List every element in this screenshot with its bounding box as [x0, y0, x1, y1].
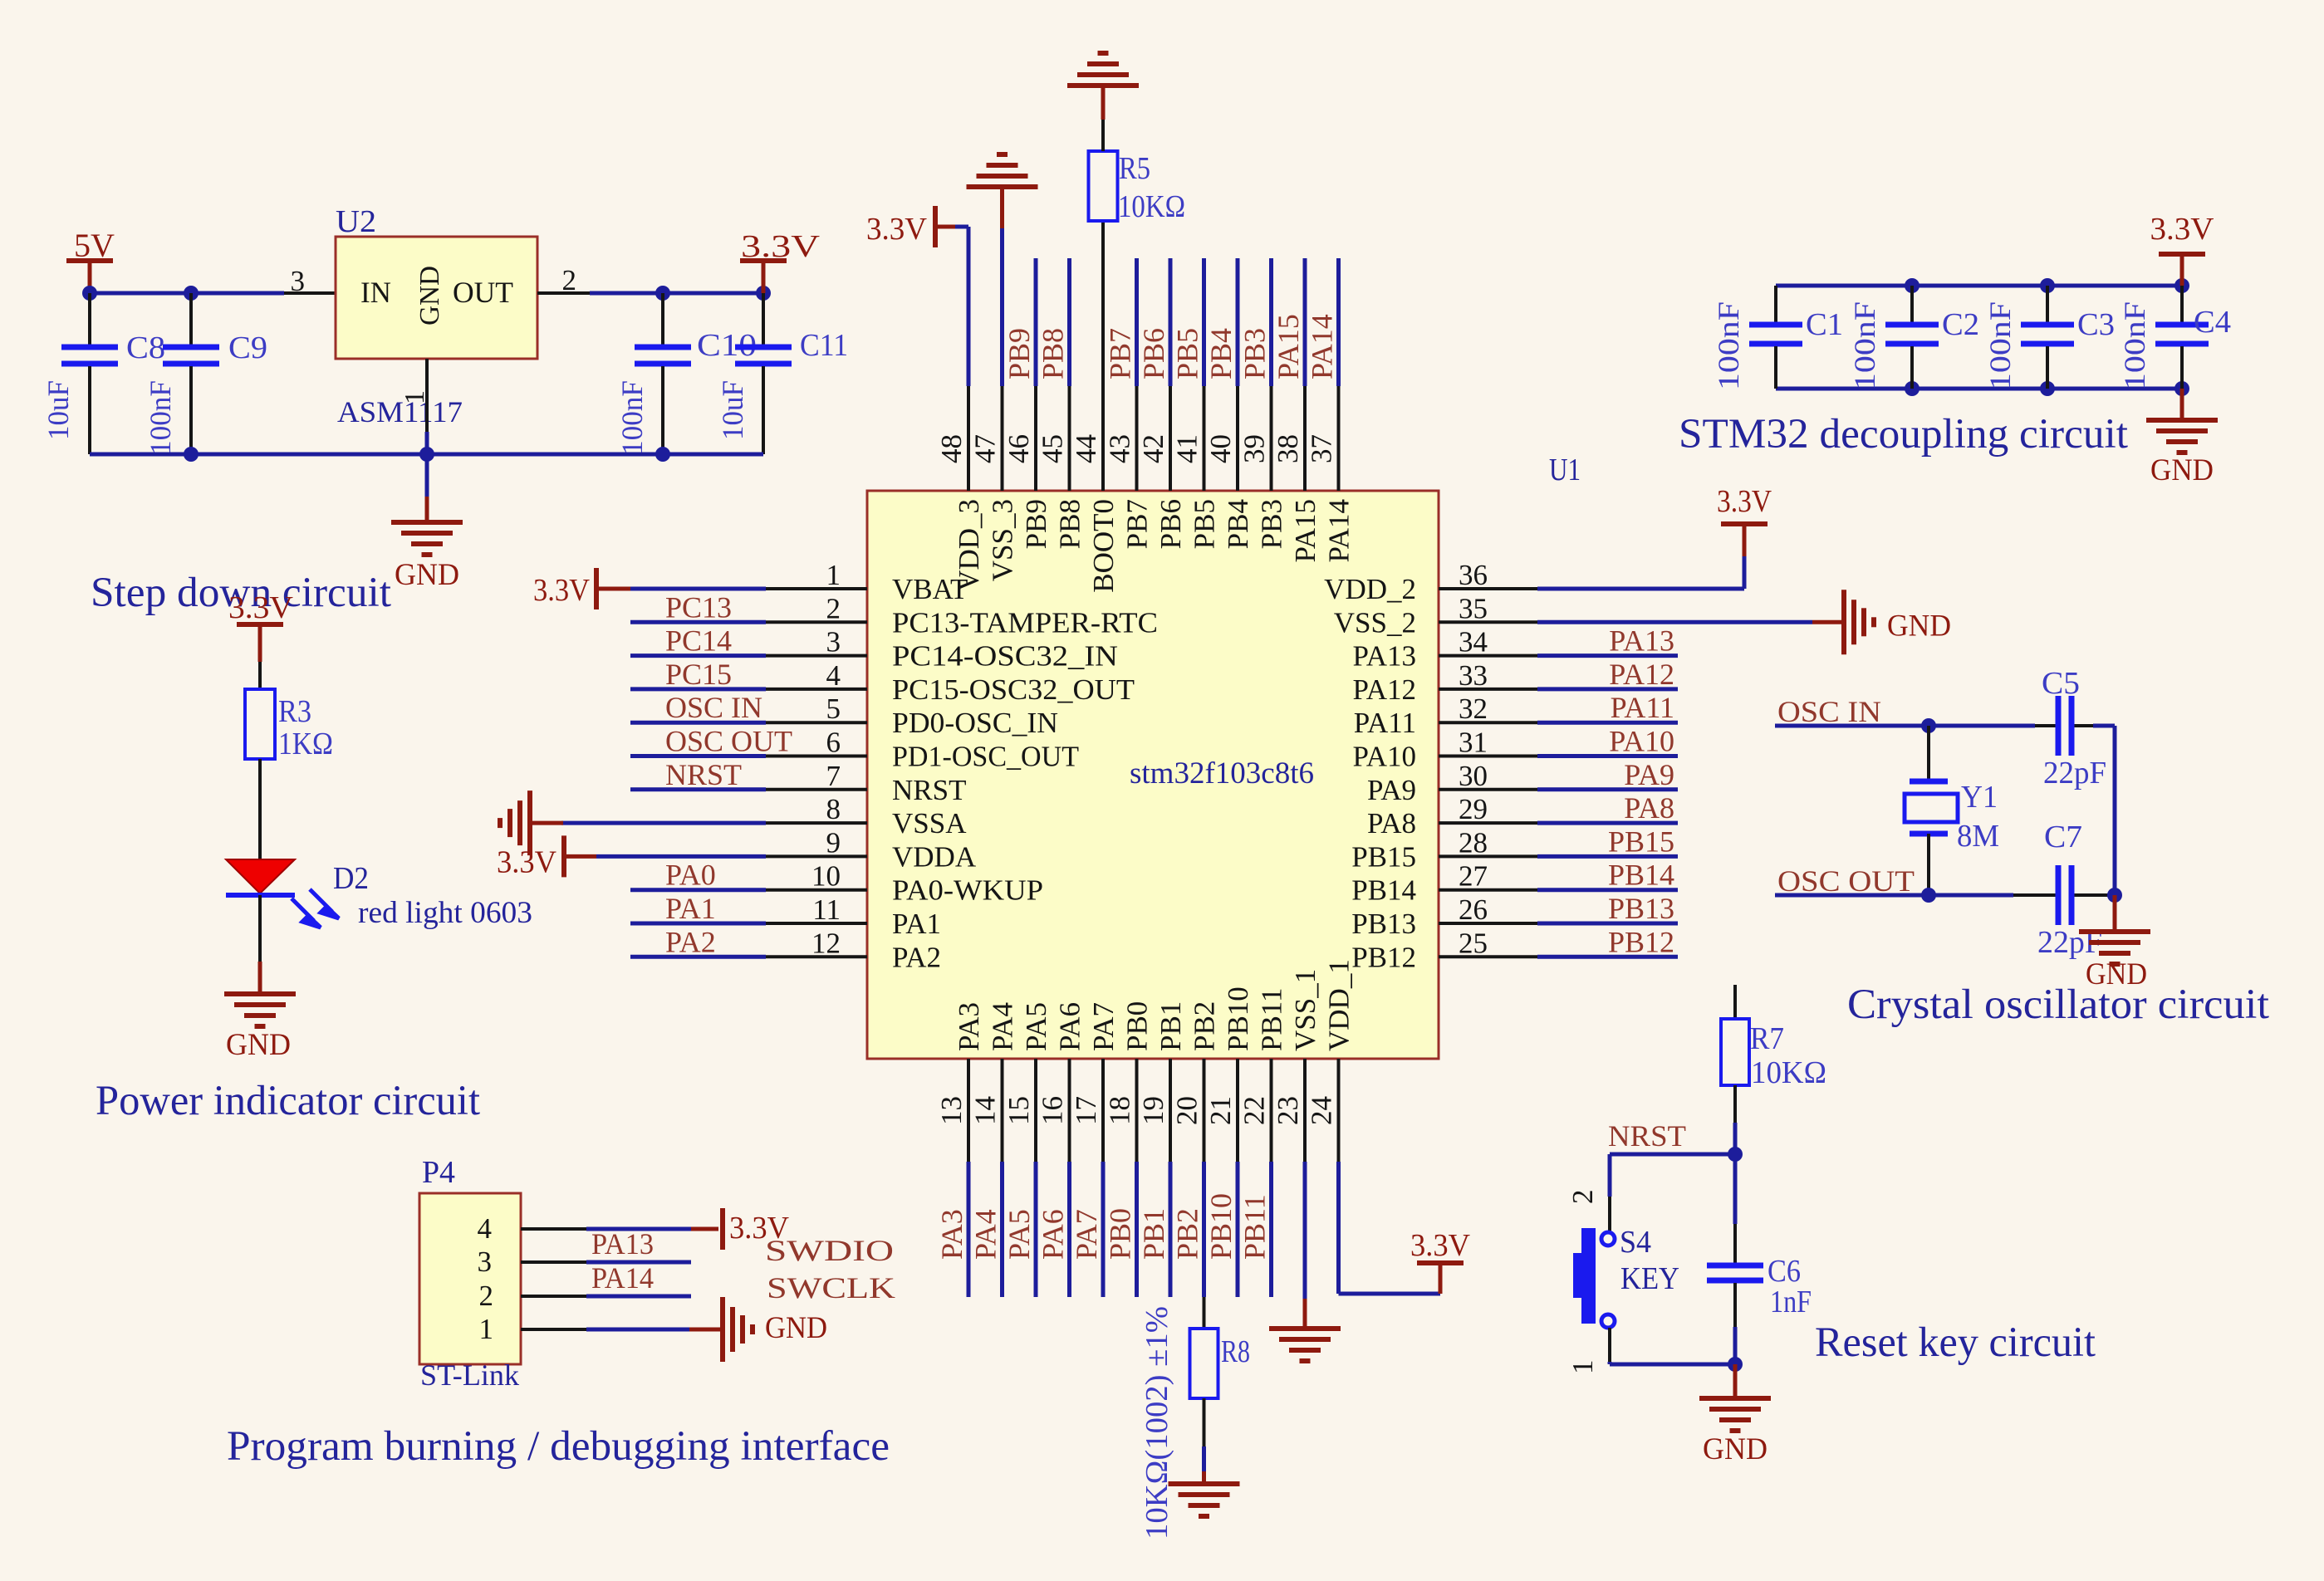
svg-text:PB7: PB7 — [1104, 328, 1137, 379]
svg-text:GND: GND — [1887, 609, 1951, 643]
svg-text:VSS_2: VSS_2 — [1334, 606, 1416, 639]
capacitor C8 10uF — [42, 293, 165, 454]
svg-text:PD1-OSC_OUT: PD1-OSC_OUT — [892, 741, 1079, 773]
svg-text:4: 4 — [826, 659, 841, 692]
node ground junction — [1728, 1357, 1743, 1372]
svg-text:36: 36 — [1459, 559, 1488, 591]
wire C5 to C7 (right leg) — [2113, 726, 2117, 895]
pin 44 BOOT0 (top) — [1070, 386, 1120, 593]
svg-text:5: 5 — [826, 693, 841, 725]
svg-text:10uF: 10uF — [42, 380, 75, 440]
svg-text:3.3V: 3.3V — [1717, 484, 1772, 519]
svg-text:40: 40 — [1204, 434, 1237, 463]
svg-text:C5: C5 — [2042, 666, 2080, 701]
svg-text:100nF: 100nF — [2118, 301, 2151, 390]
pin 27 PB14 (right) — [1351, 859, 1678, 907]
svg-text:S4: S4 — [1620, 1225, 1651, 1260]
svg-text:PA1: PA1 — [892, 908, 941, 940]
svg-text:PB13: PB13 — [1608, 892, 1674, 925]
pin 18 PB0 (bottom) — [1104, 1001, 1154, 1297]
ground (VSS_1) — [1269, 1162, 1341, 1361]
svg-text:42: 42 — [1137, 434, 1169, 463]
LED D2 red light 0603 — [226, 859, 532, 930]
svg-text:Power indicator circuit: Power indicator circuit — [96, 1078, 480, 1124]
ground GND (D2) — [224, 895, 296, 1062]
pin 11 PA1 (left) — [630, 892, 941, 940]
svg-text:2: 2 — [479, 1280, 494, 1312]
svg-text:PB0: PB0 — [1121, 1001, 1154, 1051]
ground GND (P4) — [723, 1297, 827, 1362]
svg-text:100nF: 100nF — [144, 380, 177, 455]
svg-text:PB1: PB1 — [1155, 1001, 1187, 1051]
svg-text:GND: GND — [226, 1028, 291, 1062]
pin 41 PB5 (top) — [1171, 258, 1221, 549]
svg-text:3: 3 — [826, 626, 841, 658]
svg-text:PB9: PB9 — [1020, 499, 1052, 549]
svg-text:PA9: PA9 — [1624, 758, 1674, 791]
capacitor C7 22pF — [2037, 820, 2102, 960]
svg-text:VDD_2: VDD_2 — [1324, 573, 1416, 605]
switch S4 KEY — [1573, 1225, 1679, 1328]
pin number 1 (U2 GND) — [400, 390, 430, 404]
node decoupling rail dots — [1905, 278, 2189, 396]
svg-text:Crystal oscillator circuit: Crystal oscillator circuit — [1847, 981, 2269, 1028]
svg-text:24: 24 — [1306, 1096, 1338, 1125]
pin 19 PB1 (bottom) — [1137, 1001, 1187, 1297]
svg-text:25: 25 — [1459, 927, 1488, 959]
svg-text:GND: GND — [2150, 453, 2214, 487]
pin 35 VSS_2 (right) — [1334, 592, 1537, 639]
pin 15 PA5 (bottom) — [1003, 1002, 1052, 1297]
svg-text:34: 34 — [1459, 626, 1488, 658]
svg-text:D2: D2 — [333, 861, 369, 896]
svg-text:19: 19 — [1137, 1096, 1169, 1125]
ground (R5 top) — [1067, 53, 1139, 151]
svg-text:100nF: 100nF — [615, 380, 649, 455]
svg-text:PB3: PB3 — [1238, 328, 1272, 379]
svg-text:17: 17 — [1070, 1096, 1102, 1125]
svg-text:PA11: PA11 — [1611, 691, 1674, 724]
power symbol 3.3V (LED) — [228, 590, 294, 662]
svg-text:35: 35 — [1459, 592, 1488, 624]
svg-text:100nF: 100nF — [1712, 301, 1745, 390]
pin 25 PB12 (right) — [1351, 925, 1678, 973]
svg-text:39: 39 — [1238, 434, 1271, 463]
wire OSC_IN — [1775, 724, 2115, 728]
ground GND (crystal) — [2079, 895, 2150, 991]
svg-text:PB14: PB14 — [1608, 859, 1674, 892]
svg-text:PA14: PA14 — [591, 1261, 654, 1295]
svg-text:PB13: PB13 — [1351, 908, 1416, 940]
svg-text:PA6: PA6 — [1037, 1209, 1070, 1260]
pin 4 PC15-OSC32_OUT (left) — [630, 658, 1135, 706]
svg-text:PA9: PA9 — [1367, 774, 1416, 806]
svg-text:PC13-TAMPER-RTC: PC13-TAMPER-RTC — [892, 606, 1158, 639]
svg-text:PA10: PA10 — [1352, 741, 1416, 773]
svg-text:PA8: PA8 — [1367, 807, 1416, 839]
svg-text:PB5: PB5 — [1171, 328, 1204, 379]
pin 47 VSS_3 (top) — [969, 386, 1019, 581]
svg-text:3.3V: 3.3V — [533, 573, 590, 608]
svg-text:C1: C1 — [1806, 307, 1843, 342]
svg-text:PA6: PA6 — [1054, 1002, 1086, 1051]
svg-text:4: 4 — [478, 1212, 493, 1245]
svg-text:PA4: PA4 — [969, 1209, 1003, 1260]
pin 32 PA11 (right) — [1354, 691, 1678, 739]
svg-text:PA13: PA13 — [1352, 640, 1416, 673]
pin 16 PA6 (bottom) — [1037, 1002, 1086, 1297]
svg-text:PC13: PC13 — [665, 590, 732, 624]
node OSC_IN label — [1777, 695, 1881, 728]
pin 28 PB15 (right) — [1351, 825, 1678, 873]
svg-text:PA2: PA2 — [665, 925, 716, 958]
svg-text:red light 0603: red light 0603 — [358, 896, 532, 930]
svg-text:PA8: PA8 — [1624, 791, 1674, 825]
svg-text:PB14: PB14 — [1351, 874, 1416, 907]
svg-text:2: 2 — [826, 592, 841, 624]
ground (R8 bottom) — [1169, 1398, 1240, 1516]
svg-text:VDD_3: VDD_3 — [953, 499, 985, 591]
svg-text:14: 14 — [969, 1096, 1002, 1125]
capacitor C11 10uF — [716, 293, 848, 454]
svg-text:PA7: PA7 — [1070, 1209, 1103, 1260]
wire switch pin1 to ground rail — [1610, 1328, 1735, 1364]
svg-text:PB7: PB7 — [1121, 499, 1154, 549]
svg-text:R7: R7 — [1750, 1021, 1784, 1056]
svg-text:3.3V: 3.3V — [2150, 212, 2215, 247]
svg-text:100nF: 100nF — [1848, 301, 1881, 390]
resistor R8 10KΩ(1002) ±1% — [1140, 1297, 1250, 1539]
pin 2 PC13-TAMPER-RTC (left) — [630, 590, 1158, 639]
pin 17 PA7 (bottom) — [1070, 1002, 1120, 1297]
pin 5 PD0-OSC_IN (left) — [630, 691, 1058, 739]
svg-text:10KΩ: 10KΩ — [1118, 189, 1185, 224]
svg-text:C11: C11 — [800, 328, 848, 363]
pin 3 PC14-OSC32_IN (left) — [630, 624, 1118, 673]
pin 23 VSS_1 (bottom) — [1272, 969, 1321, 1162]
svg-text:16: 16 — [1037, 1096, 1069, 1125]
svg-text:PA15: PA15 — [1272, 314, 1305, 379]
node OSC_IN junction — [1921, 718, 1936, 733]
svg-text:1nF: 1nF — [1770, 1285, 1812, 1319]
svg-text:PC15: PC15 — [665, 658, 732, 691]
pin 7 NRST (left) — [630, 758, 966, 806]
svg-text:PC15-OSC32_OUT: PC15-OSC32_OUT — [892, 673, 1135, 706]
svg-text:3: 3 — [478, 1246, 493, 1278]
power symbol 3.3V (VBAT) — [533, 568, 766, 609]
svg-text:PA0: PA0 — [665, 859, 716, 892]
svg-text:PB12: PB12 — [1608, 925, 1674, 958]
node SWDIO label — [765, 1234, 894, 1267]
svg-text:PB11: PB11 — [1238, 1194, 1272, 1260]
pin 21 PB10 (bottom) — [1204, 986, 1254, 1297]
svg-text:PA1: PA1 — [665, 892, 716, 925]
capacitor C1 100nF — [1712, 286, 1843, 390]
svg-text:PB3: PB3 — [1256, 499, 1288, 549]
svg-text:8M: 8M — [1957, 819, 1999, 854]
pin 9 VDDA (left) — [766, 826, 977, 873]
pin 24 VDD_1 (bottom) — [1306, 959, 1356, 1162]
power symbol 3.3V (VDD_1) — [1339, 1162, 1471, 1294]
svg-text:PC14: PC14 — [665, 624, 732, 658]
svg-text:PB2: PB2 — [1171, 1208, 1204, 1260]
ground GND (decoupling) — [2146, 389, 2218, 487]
svg-text:23: 23 — [1272, 1096, 1304, 1125]
wire P4 pin1 to GND — [521, 1328, 721, 1331]
svg-text:PA14: PA14 — [1306, 314, 1339, 379]
svg-text:12: 12 — [811, 927, 841, 959]
ground (VSS_3) — [967, 154, 1038, 386]
svg-text:PA7: PA7 — [1087, 1002, 1120, 1051]
svg-text:C4: C4 — [2194, 305, 2231, 340]
pin 43 PB7 (top) — [1104, 258, 1154, 549]
pin 34 PA13 (right) — [1352, 624, 1678, 673]
ground (VSS_2) — [1537, 590, 1951, 654]
pin number 2 (S4) — [1566, 1190, 1599, 1205]
svg-text:30: 30 — [1459, 760, 1488, 792]
wire 5V rail to U2.IN — [90, 291, 336, 296]
svg-text:1KΩ: 1KΩ — [278, 727, 333, 761]
wire R3 to D2 — [258, 759, 262, 859]
svg-text:VSS_1: VSS_1 — [1289, 969, 1321, 1051]
ground GND (reset) — [1699, 1364, 1771, 1466]
svg-text:PA13: PA13 — [591, 1227, 654, 1260]
pin 33 PA12 (right) — [1352, 658, 1678, 706]
label: Power indicator circuit — [96, 1078, 480, 1124]
ground (VSSA) — [500, 790, 766, 855]
svg-text:GND: GND — [1703, 1432, 1768, 1466]
svg-text:OSC OUT: OSC OUT — [1777, 864, 1915, 898]
svg-text:21: 21 — [1204, 1096, 1237, 1125]
resistor R5 10KΩ (BOOT0 pulldown) — [1089, 151, 1186, 491]
svg-text:OUT: OUT — [453, 276, 513, 309]
svg-text:PB10: PB10 — [1222, 986, 1254, 1051]
pin 20 PB2 (bottom) — [1171, 1001, 1221, 1297]
svg-text:PA12: PA12 — [1352, 673, 1416, 706]
svg-text:46: 46 — [1003, 434, 1035, 463]
svg-text:IN: IN — [360, 276, 391, 309]
power symbol 3.3V (decoupling) — [2150, 212, 2215, 286]
svg-text:R5: R5 — [1119, 151, 1150, 186]
capacitor C2 100nF — [1848, 286, 1979, 390]
svg-text:PB4: PB4 — [1204, 328, 1238, 379]
svg-text:PC14-OSC32_IN: PC14-OSC32_IN — [892, 640, 1118, 673]
svg-text:VDD_1: VDD_1 — [1323, 959, 1356, 1051]
pin 40 PB4 (top) — [1204, 258, 1254, 549]
pin 10 PA0-WKUP (left) — [630, 859, 1043, 907]
svg-text:PB15: PB15 — [1608, 825, 1674, 858]
label: Step down circuit — [91, 570, 391, 616]
svg-text:OSC IN: OSC IN — [1777, 695, 1881, 728]
connector P4 ST-Link — [419, 1155, 521, 1392]
pin 45 PB8 (top) — [1037, 258, 1086, 549]
svg-text:PA12: PA12 — [1609, 658, 1674, 691]
svg-text:PA5: PA5 — [1020, 1002, 1052, 1051]
regulator U2 ASM1117 — [336, 204, 537, 428]
svg-text:R3: R3 — [278, 694, 311, 729]
power symbol 3.3V (P4) — [723, 1208, 790, 1250]
svg-text:GND: GND — [414, 266, 445, 325]
pin number 3 (U2 IN) — [291, 265, 306, 297]
capacitor C9 100nF — [144, 293, 267, 455]
svg-text:1: 1 — [826, 559, 841, 591]
svg-text:SWCLK: SWCLK — [767, 1271, 895, 1304]
svg-text:45: 45 — [1037, 434, 1069, 463]
svg-text:13: 13 — [935, 1096, 968, 1125]
node ground rail dots — [184, 447, 670, 462]
pin number 2 (U2 OUT) — [562, 264, 577, 296]
svg-text:Reset key circuit: Reset key circuit — [1815, 1319, 2096, 1366]
power symbol 3.3V (VDD_2) — [1537, 484, 1772, 589]
svg-text:PA2: PA2 — [892, 941, 941, 973]
svg-text:10KΩ: 10KΩ — [1751, 1055, 1826, 1090]
power symbol 3.3V (VDD_3) — [866, 206, 968, 386]
resistor R3 1KΩ — [245, 662, 333, 761]
svg-text:PA5: PA5 — [1003, 1209, 1036, 1260]
svg-text:9: 9 — [826, 826, 841, 859]
svg-text:1: 1 — [1566, 1360, 1599, 1375]
svg-text:3.3V: 3.3V — [866, 212, 928, 247]
label: Reset key circuit — [1815, 1319, 2096, 1366]
svg-text:PB1: PB1 — [1137, 1208, 1170, 1260]
svg-text:27: 27 — [1459, 860, 1488, 893]
MCU U1 stm32f103c8t6 body — [867, 453, 1581, 1059]
svg-text:11: 11 — [812, 893, 841, 926]
pin 26 PB13 (right) — [1351, 892, 1678, 940]
svg-text:8: 8 — [826, 793, 841, 825]
node PA13 label — [591, 1227, 654, 1260]
svg-text:26: 26 — [1459, 893, 1488, 926]
svg-text:PA0-WKUP: PA0-WKUP — [892, 874, 1043, 907]
svg-text:PB8: PB8 — [1054, 499, 1086, 549]
capacitor C5 22pF — [2042, 666, 2106, 790]
pin 14 PA4 (bottom) — [969, 1002, 1019, 1297]
node OSC_OUT junctions — [1921, 888, 2122, 903]
wire NRST to switch pin2 — [1610, 1154, 1735, 1232]
pin 12 PA2 (left) — [630, 925, 941, 973]
svg-text:PB10: PB10 — [1204, 1193, 1238, 1260]
svg-text:PB6: PB6 — [1137, 328, 1170, 379]
svg-text:PB5: PB5 — [1189, 499, 1221, 549]
label: STM32 decoupling circuit — [1679, 411, 2128, 458]
svg-text:7: 7 — [826, 760, 841, 792]
node NRST label — [1608, 1119, 1686, 1153]
svg-text:C9: C9 — [228, 330, 267, 365]
svg-text:BOOT0: BOOT0 — [1087, 499, 1120, 593]
pin 29 PA8 (right) — [1367, 791, 1678, 839]
svg-text:PA4: PA4 — [987, 1002, 1019, 1051]
svg-text:ST-Link: ST-Link — [420, 1358, 519, 1392]
node 3.3V rail dots — [655, 286, 771, 301]
pin 37 PA14 (top) — [1306, 258, 1356, 563]
svg-text:GND: GND — [765, 1311, 827, 1345]
wire decoupling top rail — [1776, 284, 2182, 288]
svg-text:PA11: PA11 — [1354, 707, 1416, 739]
svg-text:NRST: NRST — [892, 774, 966, 806]
wire U2.OUT to 3.3V rail — [537, 291, 763, 295]
ground GND (U2) — [391, 454, 463, 592]
svg-text:STM32 decoupling circuit: STM32 decoupling circuit — [1679, 411, 2128, 458]
svg-text:NRST: NRST — [1608, 1119, 1686, 1153]
capacitor C3 100nF — [1983, 286, 2115, 390]
svg-text:VSSA: VSSA — [892, 807, 967, 839]
wire decoupling bottom rail — [1776, 387, 2182, 391]
svg-text:32: 32 — [1459, 693, 1488, 725]
svg-text:PA13: PA13 — [1609, 624, 1674, 658]
svg-text:41: 41 — [1171, 434, 1204, 463]
svg-text:10: 10 — [811, 860, 841, 893]
svg-text:31: 31 — [1459, 727, 1488, 759]
svg-text:U1: U1 — [1549, 453, 1581, 487]
svg-text:3.3V: 3.3V — [228, 590, 294, 625]
pin 22 PB11 (bottom) — [1238, 987, 1288, 1297]
svg-text:Y1: Y1 — [1961, 780, 1998, 815]
svg-text:PB0: PB0 — [1104, 1208, 1137, 1260]
capacitor C6 1nF — [1707, 1154, 1812, 1364]
pin 46 PB9 (top) — [1003, 258, 1052, 549]
capacitor C10 100nF — [615, 293, 757, 455]
svg-text:C3: C3 — [2077, 307, 2115, 342]
svg-text:37: 37 — [1306, 434, 1338, 463]
svg-text:PA3: PA3 — [953, 1002, 985, 1051]
wire OSC_OUT — [1775, 893, 2115, 898]
pin 13 PA3 (bottom) — [935, 1002, 985, 1297]
node NRST junction — [1728, 1147, 1743, 1162]
svg-text:SWDIO: SWDIO — [765, 1234, 894, 1267]
svg-text:3: 3 — [291, 265, 306, 297]
svg-text:22pF: 22pF — [2043, 756, 2106, 790]
svg-text:22: 22 — [1238, 1096, 1271, 1125]
wire R7 to NRST node — [1733, 1085, 1737, 1154]
svg-text:PB6: PB6 — [1155, 499, 1187, 549]
wire ground rail (bottom) — [90, 453, 763, 457]
svg-text:10uF: 10uF — [716, 380, 749, 440]
svg-text:6: 6 — [826, 727, 841, 759]
svg-text:OSC IN: OSC IN — [665, 691, 762, 724]
svg-text:PB2: PB2 — [1189, 1001, 1221, 1051]
svg-text:PA14: PA14 — [1323, 499, 1356, 563]
svg-text:OSC OUT: OSC OUT — [665, 725, 792, 758]
pin 6 PD1-OSC_OUT (left) — [630, 725, 1079, 773]
pin 36 VDD_2 (right) — [1324, 559, 1537, 605]
pin 48 VDD_3 (top) — [935, 386, 985, 591]
svg-text:VSS_3: VSS_3 — [987, 499, 1019, 581]
svg-text:VDDA: VDDA — [892, 840, 977, 873]
svg-text:2: 2 — [1566, 1190, 1599, 1205]
svg-text:PB11: PB11 — [1256, 987, 1288, 1051]
svg-text:U2: U2 — [336, 204, 376, 239]
node PA14 label — [591, 1261, 654, 1295]
svg-text:1: 1 — [479, 1313, 494, 1345]
power symbol 3.3V (step-down output) — [740, 229, 821, 293]
pin 39 PB3 (top) — [1238, 258, 1288, 549]
resistor R7 10KΩ — [1721, 985, 1826, 1090]
pin 30 PA9 (right) — [1367, 758, 1678, 806]
svg-text:10KΩ(1002) ±1%: 10KΩ(1002) ±1% — [1140, 1306, 1174, 1539]
pin 38 PA15 (top) — [1272, 258, 1321, 563]
svg-text:PD0-OSC_IN: PD0-OSC_IN — [892, 707, 1058, 739]
svg-text:44: 44 — [1070, 434, 1102, 463]
svg-text:PB15: PB15 — [1351, 840, 1416, 873]
svg-text:P4: P4 — [422, 1155, 455, 1190]
pin 31 PA10 (right) — [1352, 725, 1678, 773]
wire P4 pin4 to 3.3V — [521, 1227, 718, 1231]
svg-text:R8: R8 — [1221, 1334, 1250, 1369]
node SWCLK label — [767, 1271, 895, 1304]
svg-text:GND: GND — [395, 558, 459, 592]
svg-text:38: 38 — [1272, 434, 1304, 463]
svg-text:47: 47 — [969, 434, 1002, 463]
